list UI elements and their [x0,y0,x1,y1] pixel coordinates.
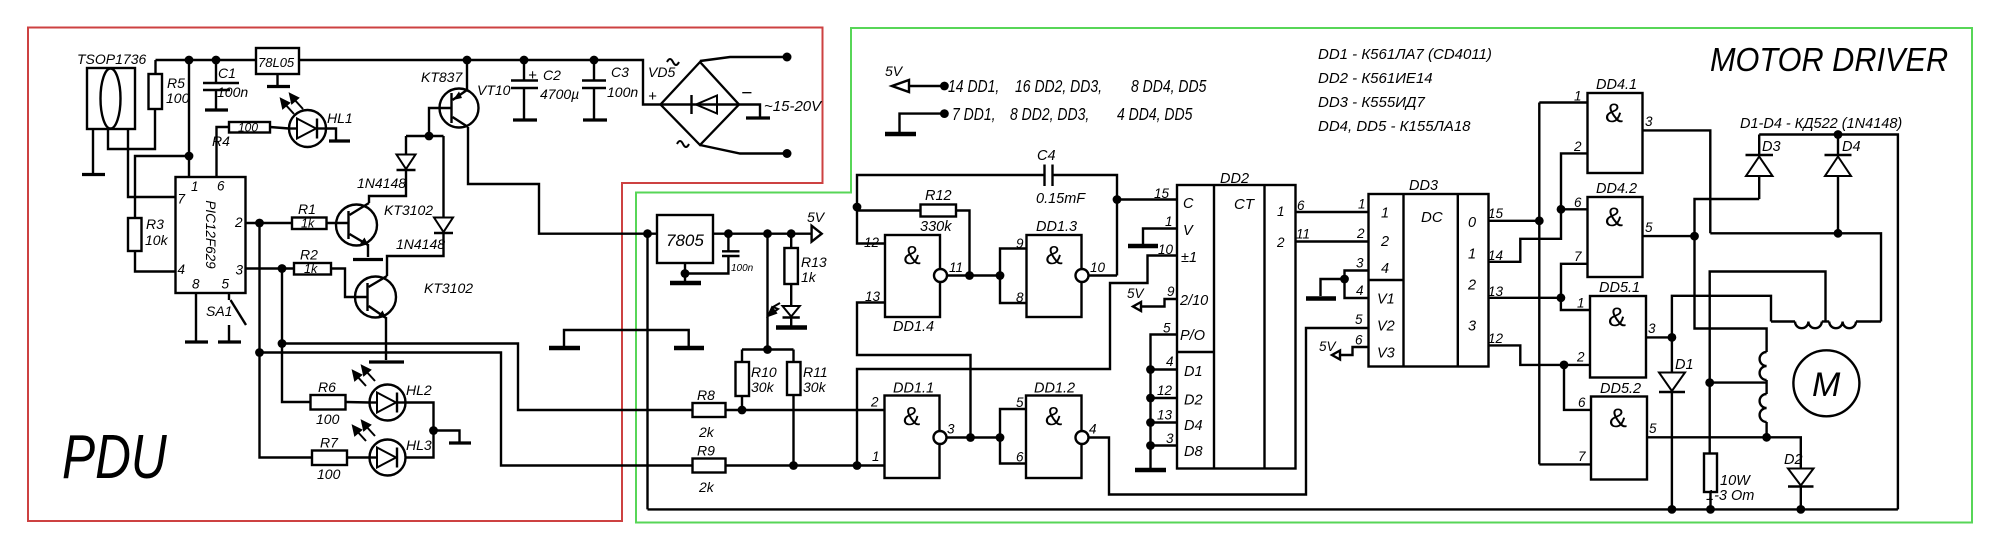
transistor KT837 VT10 [421,69,511,128]
long wire to R9 [260,353,693,466]
wire DD1.1 output [947,436,1001,438]
svg-text:KT837: KT837 [421,69,463,85]
node dot 10W/rail [1706,505,1715,514]
svg-text:1N4148: 1N4148 [396,236,445,252]
svg-text:P/O: P/O [1180,328,1205,344]
diode D3 [1746,135,1781,200]
svg-text:10: 10 [1158,242,1174,257]
78L05 ground stub [276,74,278,86]
svg-text:3: 3 [236,263,244,278]
DD2 pin 13 D4 [1151,421,1178,423]
DD3 pin 6 V3 with 5V arrow [1340,347,1369,355]
node dot rail/C3 [590,56,599,65]
capacitor C2 4700u [511,60,579,120]
node dot rail/C2 [520,56,529,65]
diode D1 [1659,337,1694,509]
node dot R10/R11 top [763,345,772,354]
svg-text:R2: R2 [300,247,318,263]
svg-text:DD4.2: DD4.2 [1596,181,1637,197]
node dot pin2 branch [255,219,264,228]
svg-text:&: & [903,401,920,431]
svg-text:±1: ±1 [1181,250,1197,266]
svg-text:&: & [1045,401,1062,431]
svg-text:1: 1 [1468,247,1476,263]
svg-text:HL1: HL1 [327,110,353,126]
net A1 wire to winding B top [1695,236,1767,352]
svg-text:15: 15 [1488,206,1504,221]
resistor R3 10k [128,216,176,272]
DD5.1 output wire [1646,336,1672,338]
DD4.1 pin1 wire [1539,101,1587,103]
node dot winding B bottom [1762,433,1771,442]
capacitor 100n at 7805 [685,234,754,274]
svg-text:78L05: 78L05 [258,55,295,70]
svg-text:DD2 - К561ИЕ14: DD2 - К561ИЕ14 [1318,70,1433,87]
HL1 emission arrows [281,94,303,114]
5V supply legend arrow [885,63,1207,96]
svg-text:R3: R3 [146,216,164,232]
svg-text:4: 4 [1381,261,1389,277]
svg-text:6: 6 [1574,195,1582,210]
DD2 pin 5 P/O and data bus [1151,335,1178,469]
svg-text:HL2: HL2 [406,382,432,398]
svg-text:16 DD2, DD3,: 16 DD2, DD3, [1015,78,1102,97]
node dot R9/DD2 up-down control [853,461,862,470]
svg-text:−: − [741,83,752,104]
wire to R7 [260,353,313,458]
node dot rail/pin1 [185,56,194,65]
KT837 emitter wire to rail [466,60,468,90]
node dot rail/C1 [212,56,221,65]
DD5.2 pin6 wire [1564,365,1591,410]
resistor R9 2k [693,443,726,496]
svg-text:10: 10 [1090,260,1106,275]
svg-text:2: 2 [1356,226,1365,241]
svg-text:R13: R13 [801,254,827,270]
svg-text:D1: D1 [1675,357,1694,373]
NAND gate DD1.4 [864,235,963,335]
node dot net A1 [1690,232,1699,241]
node dot HL2/HL3 [429,426,438,435]
capacitor C4 0.15mF [857,148,1117,276]
wire R8 to DD1.1 pin2 [726,409,885,411]
svg-text:8: 8 [192,277,200,292]
resistor R8 2k [693,387,726,440]
node dot R12/output [965,271,974,280]
svg-text:7: 7 [178,192,186,207]
HL3 emission arrows [353,421,375,441]
svg-text:3: 3 [1356,256,1364,271]
svg-text:5V: 5V [1127,286,1146,301]
svg-text:5: 5 [1016,395,1024,410]
svg-text:5: 5 [1649,421,1657,436]
svg-text:C4: C4 [1037,148,1056,164]
AND gate DD4.1 [1573,77,1653,173]
svg-text:6: 6 [1578,395,1586,410]
svg-text:&: & [1609,403,1627,433]
wire 7805 input down to motor rail [646,234,648,510]
svg-text:7: 7 [1574,249,1582,264]
counter DD2 [1177,171,1296,469]
svg-text:KT3102: KT3102 [424,280,473,296]
svg-text:4: 4 [1166,354,1174,369]
resistor R5 100 [149,60,190,109]
wire pin3 branch down [281,269,283,344]
net A2 wire to winding A right end [1710,233,1881,321]
svg-text:VD5: VD5 [648,64,675,80]
svg-text:DD1.1: DD1.1 [893,381,934,397]
svg-text:HL3: HL3 [406,437,432,453]
svg-text:1: 1 [1381,206,1389,222]
wire R9 to DD1.1 pin1 [726,464,885,466]
svg-text:100n: 100n [217,84,248,100]
svg-text:3: 3 [1166,431,1174,446]
DD4.2 output wire [1643,235,1695,237]
small ground for HL2/HL3 [434,431,460,443]
net out0 vertical DD4.1-1/DD5.2-7 [1538,103,1540,465]
svg-text:9: 9 [1016,236,1024,251]
svg-text:DD4, DD5 - К155ЛА18: DD4, DD5 - К155ЛА18 [1318,118,1471,135]
svg-text:12: 12 [1488,331,1504,346]
IR receiver TSOP1736 [77,51,146,129]
svg-text:13: 13 [1157,408,1173,423]
node dot taps junction [1705,378,1714,387]
resistor R7 100 [312,435,370,483]
DD2 pin 4 D1 [1151,368,1178,370]
DD3 pins 3,4 grounded [1345,271,1369,299]
voltage regulator 7805 [657,215,713,263]
DD2 pin 1 V ground [1143,229,1177,245]
TSOP OUT pin wire to PIC pin 7 [128,129,176,197]
DD5.1 pin1 wire [1561,298,1590,310]
svg-text:6: 6 [1297,198,1305,213]
svg-text:100: 100 [166,90,190,106]
wire DD1.3 output to C4 [1089,274,1118,276]
node dot D4 anode [1834,229,1843,238]
svg-text:CT: CT [1234,196,1256,213]
catch diode top wire to +V [1759,135,1898,510]
svg-text:V1: V1 [1377,292,1395,308]
capacitor C3 100n [582,60,638,120]
svg-text:2k: 2k [698,479,715,495]
svg-text:6: 6 [217,179,225,194]
svg-text:DD3: DD3 [1409,178,1438,194]
svg-text:1k: 1k [304,262,318,276]
svg-text:8 DD2, DD3,: 8 DD2, DD3, [1010,106,1089,125]
resistor R1 1k [292,201,348,231]
node dot C4/R12 [853,203,862,212]
winding B (vertical coil) [1760,352,1767,437]
svg-text:14: 14 [1488,248,1503,263]
node dot out0 [1535,216,1544,225]
svg-text:12: 12 [864,235,880,250]
node dot HL2 row branch [278,339,287,348]
svg-text:DD3 - К555ИД7: DD3 - К555ИД7 [1318,94,1425,111]
TSOP Vs pin wire to R5 bottom [108,109,155,149]
svg-text:100: 100 [316,411,340,427]
diode 1N4148 (lower) [396,136,453,252]
svg-text:3: 3 [947,422,955,437]
switch SA1 on pin 5 [206,293,246,342]
svg-text:R4: R4 [212,133,230,149]
motor +V bottom rail [648,508,1898,510]
svg-text:2: 2 [234,215,243,230]
svg-text:8: 8 [1016,290,1024,305]
node dot net B1 [1668,333,1677,342]
svg-text:1: 1 [872,449,880,464]
AND gate DD5.1 [1576,280,1656,378]
svg-text:30k: 30k [803,379,827,395]
svg-text:DD2: DD2 [1220,171,1249,187]
diode D4 [1825,135,1861,234]
node dot D4 cathode [1834,130,1843,139]
DD3 output 1 wire [1489,209,1562,261]
wire DD1.4 pin13 from DD1.1 output [857,303,971,438]
wire branch to R3 [135,156,189,218]
LED HL1 [270,110,353,147]
node dot R10/R11 branch [763,229,772,238]
node dot DD1.3 inputs [996,271,1005,280]
motor symbol M [1793,350,1859,416]
DD3 output 0 wire [1489,220,1540,222]
svg-text:V: V [1183,223,1194,239]
VD5 AC terminal top [700,57,786,61]
svg-text:&: & [903,240,920,270]
svg-text:100n: 100n [607,84,638,100]
bridge rectifier VD5 [648,59,752,147]
svg-text:12: 12 [1157,383,1173,398]
PDU/driver ground link [564,330,689,346]
5V output arrow [812,226,822,242]
wire DD2 out2 to DD3 [1296,240,1369,242]
LED HL3 [370,437,432,476]
svg-text:100n: 100n [731,263,754,274]
svg-text:13: 13 [1488,284,1504,299]
svg-text:&: & [1045,240,1062,270]
svg-text:D4: D4 [1842,139,1861,155]
wire pin2 branch down [258,223,260,353]
DD2 pin 12 D2 [1151,397,1178,399]
svg-text:M: M [1812,366,1841,404]
svg-text:V2: V2 [1377,319,1395,335]
svg-text:8 DD4, DD5: 8 DD4, DD5 [1131,78,1207,97]
transistor KT3102 Q1 [336,202,433,260]
DD5.2 pin7 wire [1539,463,1591,465]
VD5 minus output [739,105,760,118]
svg-text:MOTOR DRIVER: MOTOR DRIVER [1710,41,1948,78]
microcontroller PIC12F629 [176,177,246,293]
svg-text:1: 1 [191,179,199,194]
resistor 10W 1-3 Om [1704,454,1754,510]
NAND gate DD1.1 [870,381,955,479]
svg-text:2k: 2k [698,424,715,440]
svg-text:D8: D8 [1184,444,1203,460]
LED HL2 [370,382,432,421]
svg-text:30k: 30k [751,379,775,395]
node dot D2/rail [1796,505,1805,514]
HL2/HL3 common cathode wire [406,403,434,458]
svg-text:R7: R7 [320,435,339,451]
node dot output/feedback [966,433,975,442]
svg-text:TSOP1736: TSOP1736 [77,51,146,67]
svg-text:1: 1 [1277,204,1285,219]
decoder DD3 [1369,178,1489,367]
svg-text:5V: 5V [885,63,904,79]
wire DD2 out1 to DD3 [1296,211,1369,213]
resistor R12 330k [857,188,970,276]
PDU red border box [28,28,823,522]
svg-text:R10: R10 [751,364,777,380]
svg-text:DC: DC [1421,209,1443,226]
svg-text:4: 4 [1089,422,1097,437]
svg-text:7805: 7805 [666,231,704,250]
svg-text:R11: R11 [803,364,828,380]
svg-text:R6: R6 [318,379,336,395]
MOTOR DRIVER green border box [636,28,1972,523]
svg-text:2: 2 [870,395,879,410]
svg-text:R8: R8 [697,387,715,403]
diode 1N4148 (upper) [357,136,416,191]
wire node up to KT837 base [429,108,452,136]
svg-text:R5: R5 [167,75,185,91]
DD4.2 pin7 wire [1561,264,1588,298]
svg-text:10k: 10k [145,232,169,248]
svg-text:DD4.1: DD4.1 [1596,77,1637,93]
DD4.2 pin6 wire [1561,208,1588,210]
DD2 pin 9 2/10 with 5V arrow [1141,299,1177,307]
node dot 7805 input [643,229,652,238]
svg-text:2: 2 [1573,139,1582,154]
svg-text:3: 3 [1645,114,1653,129]
winding A (horizontal coil) [1771,322,1881,329]
svg-text:C2: C2 [543,67,561,83]
svg-text:V3: V3 [1377,346,1395,362]
node dot out2 [1557,293,1566,302]
svg-text:PDU: PDU [62,422,167,492]
svg-text:D2: D2 [1784,452,1803,468]
svg-text:2: 2 [1467,278,1476,294]
node dot 100n [724,229,733,238]
svg-text:7: 7 [1578,449,1586,464]
svg-text:2: 2 [1380,234,1389,250]
HL2 emission arrows [353,366,375,386]
7805 output 5V wire [713,232,812,234]
svg-text:C3: C3 [611,64,629,80]
node dot pin1/R3 branch [185,152,194,161]
svg-text:VT10: VT10 [477,82,511,98]
svg-text:DD1 - К561ЛА7 (CD4011): DD1 - К561ЛА7 (CD4011) [1318,46,1492,63]
node dot pin3 branch [278,264,287,273]
svg-text:C: C [1183,196,1194,212]
svg-text:11: 11 [949,260,963,275]
wire diode to KT837 base node [406,135,444,137]
node dot out1 [1557,205,1566,214]
D3 anode wire to net A1 [1695,199,1760,236]
svg-text:SA1: SA1 [206,303,232,319]
svg-text:5: 5 [1355,312,1363,327]
svg-text:4700µ: 4700µ [540,86,579,102]
svg-text:PIC12F629: PIC12F629 [203,200,218,269]
DD2 pin 10 up/down wire to R9 node [857,256,1177,466]
svg-text:5V: 5V [1319,339,1338,354]
wire PIC pin2 [246,222,292,224]
PIC pin 8 ground [195,293,197,341]
svg-text:100: 100 [317,466,341,482]
long wire to R8 [282,344,693,411]
capacitor C1 100n [203,60,248,110]
svg-text:1: 1 [1577,296,1585,311]
svg-text:R12: R12 [925,188,952,204]
KT837 collector wire to 7805 input [468,127,657,234]
voltage regulator 78L05 [256,48,299,74]
NAND gate DD1.2 [1016,381,1097,479]
DD3 output 2 wire [1489,297,1561,299]
svg-text:3: 3 [1648,321,1656,336]
wire taps to 10W resistor [1708,383,1710,454]
svg-text:1-3 Om: 1-3 Om [1706,488,1754,504]
svg-text:6: 6 [1355,333,1363,348]
svg-text:DD5.1: DD5.1 [1599,280,1640,296]
svg-text:1: 1 [1574,89,1582,104]
winding B center tap wire [1710,381,1767,383]
resistor R6 100 [311,379,370,427]
svg-text:DD1.2: DD1.2 [1034,381,1075,397]
node dot R13 [787,229,796,238]
wire pin1 vertical from rail [188,60,190,177]
wire 5V to R10/R11 [766,234,768,350]
node dot HL3 row branch [255,348,264,357]
svg-text:+: + [648,88,657,105]
DD2 pin 3 D8 [1151,444,1178,446]
svg-text:11: 11 [1296,227,1310,242]
svg-text:R1: R1 [298,201,316,217]
IC legend [1318,46,1492,135]
svg-text:DD5.2: DD5.2 [1600,381,1641,397]
svg-text:5: 5 [1645,220,1653,235]
resistor R10 30k [736,350,777,411]
NAND gate DD1.3 [1016,219,1106,317]
svg-text:D4: D4 [1184,418,1203,434]
svg-text:14 DD1,: 14 DD1, [948,78,999,97]
node dot DD1.2 inputs [996,433,1005,442]
AND gate DD4.2 [1574,181,1653,277]
svg-text:D1-D4 - КД522 (1N4148): D1-D4 - КД522 (1N4148) [1740,116,1902,132]
wire PIC pin3 [246,267,294,269]
svg-text:C1: C1 [218,65,236,81]
svg-text:DD1.4: DD1.4 [893,319,934,335]
DD1.3 input bracket [1000,249,1027,304]
svg-text:1k: 1k [301,217,315,231]
svg-text:&: & [1608,302,1626,332]
svg-text:0.15mF: 0.15mF [1036,191,1086,207]
svg-text:6: 6 [1016,450,1024,465]
7805 ground [681,269,690,278]
svg-text:D2: D2 [1184,393,1203,409]
Q2 collector wire to diode 2 [387,233,444,276]
wire DD1.4 output [947,274,1000,276]
svg-text:1: 1 [1358,197,1366,212]
resistor R13 1k [784,234,826,285]
node dot C4/DD2 clock [1113,195,1122,204]
Q1 collector wire to diode [369,170,406,203]
svg-text:D1: D1 [1184,364,1203,380]
svg-text:&: & [1605,202,1623,232]
svg-text:0: 0 [1468,215,1476,231]
svg-text:4: 4 [1356,283,1364,298]
wire to DD2 pin 15 [1117,198,1177,200]
svg-text:R9: R9 [697,443,715,459]
node dot R8/R10 [738,406,747,415]
